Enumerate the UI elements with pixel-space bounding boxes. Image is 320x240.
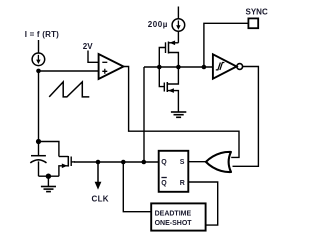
or gate U4 (mirrored) xyxy=(206,152,231,172)
label 2V xyxy=(83,42,93,51)
svg-text:DEADTIME: DEADTIME xyxy=(155,211,192,218)
svg-text:S: S xyxy=(180,159,185,166)
capacitor CT xyxy=(30,142,46,177)
node CLK tap xyxy=(96,160,101,165)
wire xyxy=(39,175,59,177)
wire xyxy=(38,40,40,53)
wire xyxy=(88,51,99,63)
node gate tap xyxy=(157,65,162,70)
wire xyxy=(233,67,259,167)
wire R input xyxy=(188,182,217,225)
current source I=f(RT) xyxy=(32,53,45,66)
wire xyxy=(124,67,240,158)
ground xyxy=(171,112,186,117)
svg-text:I = f (RT): I = f (RT) xyxy=(25,30,59,39)
wire xyxy=(39,142,59,157)
node CT (junction) xyxy=(36,69,41,74)
transistor Q3 (discharge NMOS) xyxy=(59,156,75,176)
node gate-drive tap xyxy=(142,160,147,165)
svg-text:CLK: CLK xyxy=(92,194,109,203)
wire xyxy=(204,23,249,67)
node sync tap xyxy=(202,65,207,70)
svg-text:2V: 2V xyxy=(83,42,93,51)
CLK arrow xyxy=(95,162,102,190)
node one-shot tap xyxy=(121,160,126,165)
wire xyxy=(177,31,179,43)
wire xyxy=(39,70,99,72)
label SYNC xyxy=(246,7,268,16)
deadtime one-shot block xyxy=(151,203,205,230)
wire xyxy=(177,7,179,19)
terminal SYNC pad xyxy=(248,18,258,28)
transistor Q2 (NMOS) xyxy=(159,67,178,112)
label I = f (RT) xyxy=(25,30,59,39)
ground xyxy=(41,176,56,191)
wire CLK bus xyxy=(74,161,158,163)
svg-text:ONE-SHOT: ONE-SHOT xyxy=(155,220,193,227)
comparator U1 xyxy=(99,54,124,79)
wire xyxy=(38,71,40,142)
sawtooth waveform xyxy=(49,82,89,97)
svg-text:Q: Q xyxy=(161,180,167,187)
label 200u xyxy=(148,20,168,29)
wire xyxy=(123,162,151,212)
node CT bottom (junction) xyxy=(36,139,41,144)
label CLK xyxy=(92,194,109,203)
svg-text:Q: Q xyxy=(161,159,167,166)
wire drain rail xyxy=(144,66,213,68)
node drain tap xyxy=(176,65,181,70)
wire S input xyxy=(188,161,206,163)
current source 200uA xyxy=(172,19,185,32)
transistor Q1 (PMOS) xyxy=(159,41,178,68)
node ground (junction) xyxy=(46,174,51,179)
wire xyxy=(143,67,145,162)
latch U3 (SR flip-flop) xyxy=(159,151,189,192)
svg-text:SYNC: SYNC xyxy=(246,7,268,16)
schmitt trigger U2 xyxy=(213,54,243,78)
svg-text:200µ: 200µ xyxy=(148,20,168,29)
svg-text:R: R xyxy=(180,180,185,187)
